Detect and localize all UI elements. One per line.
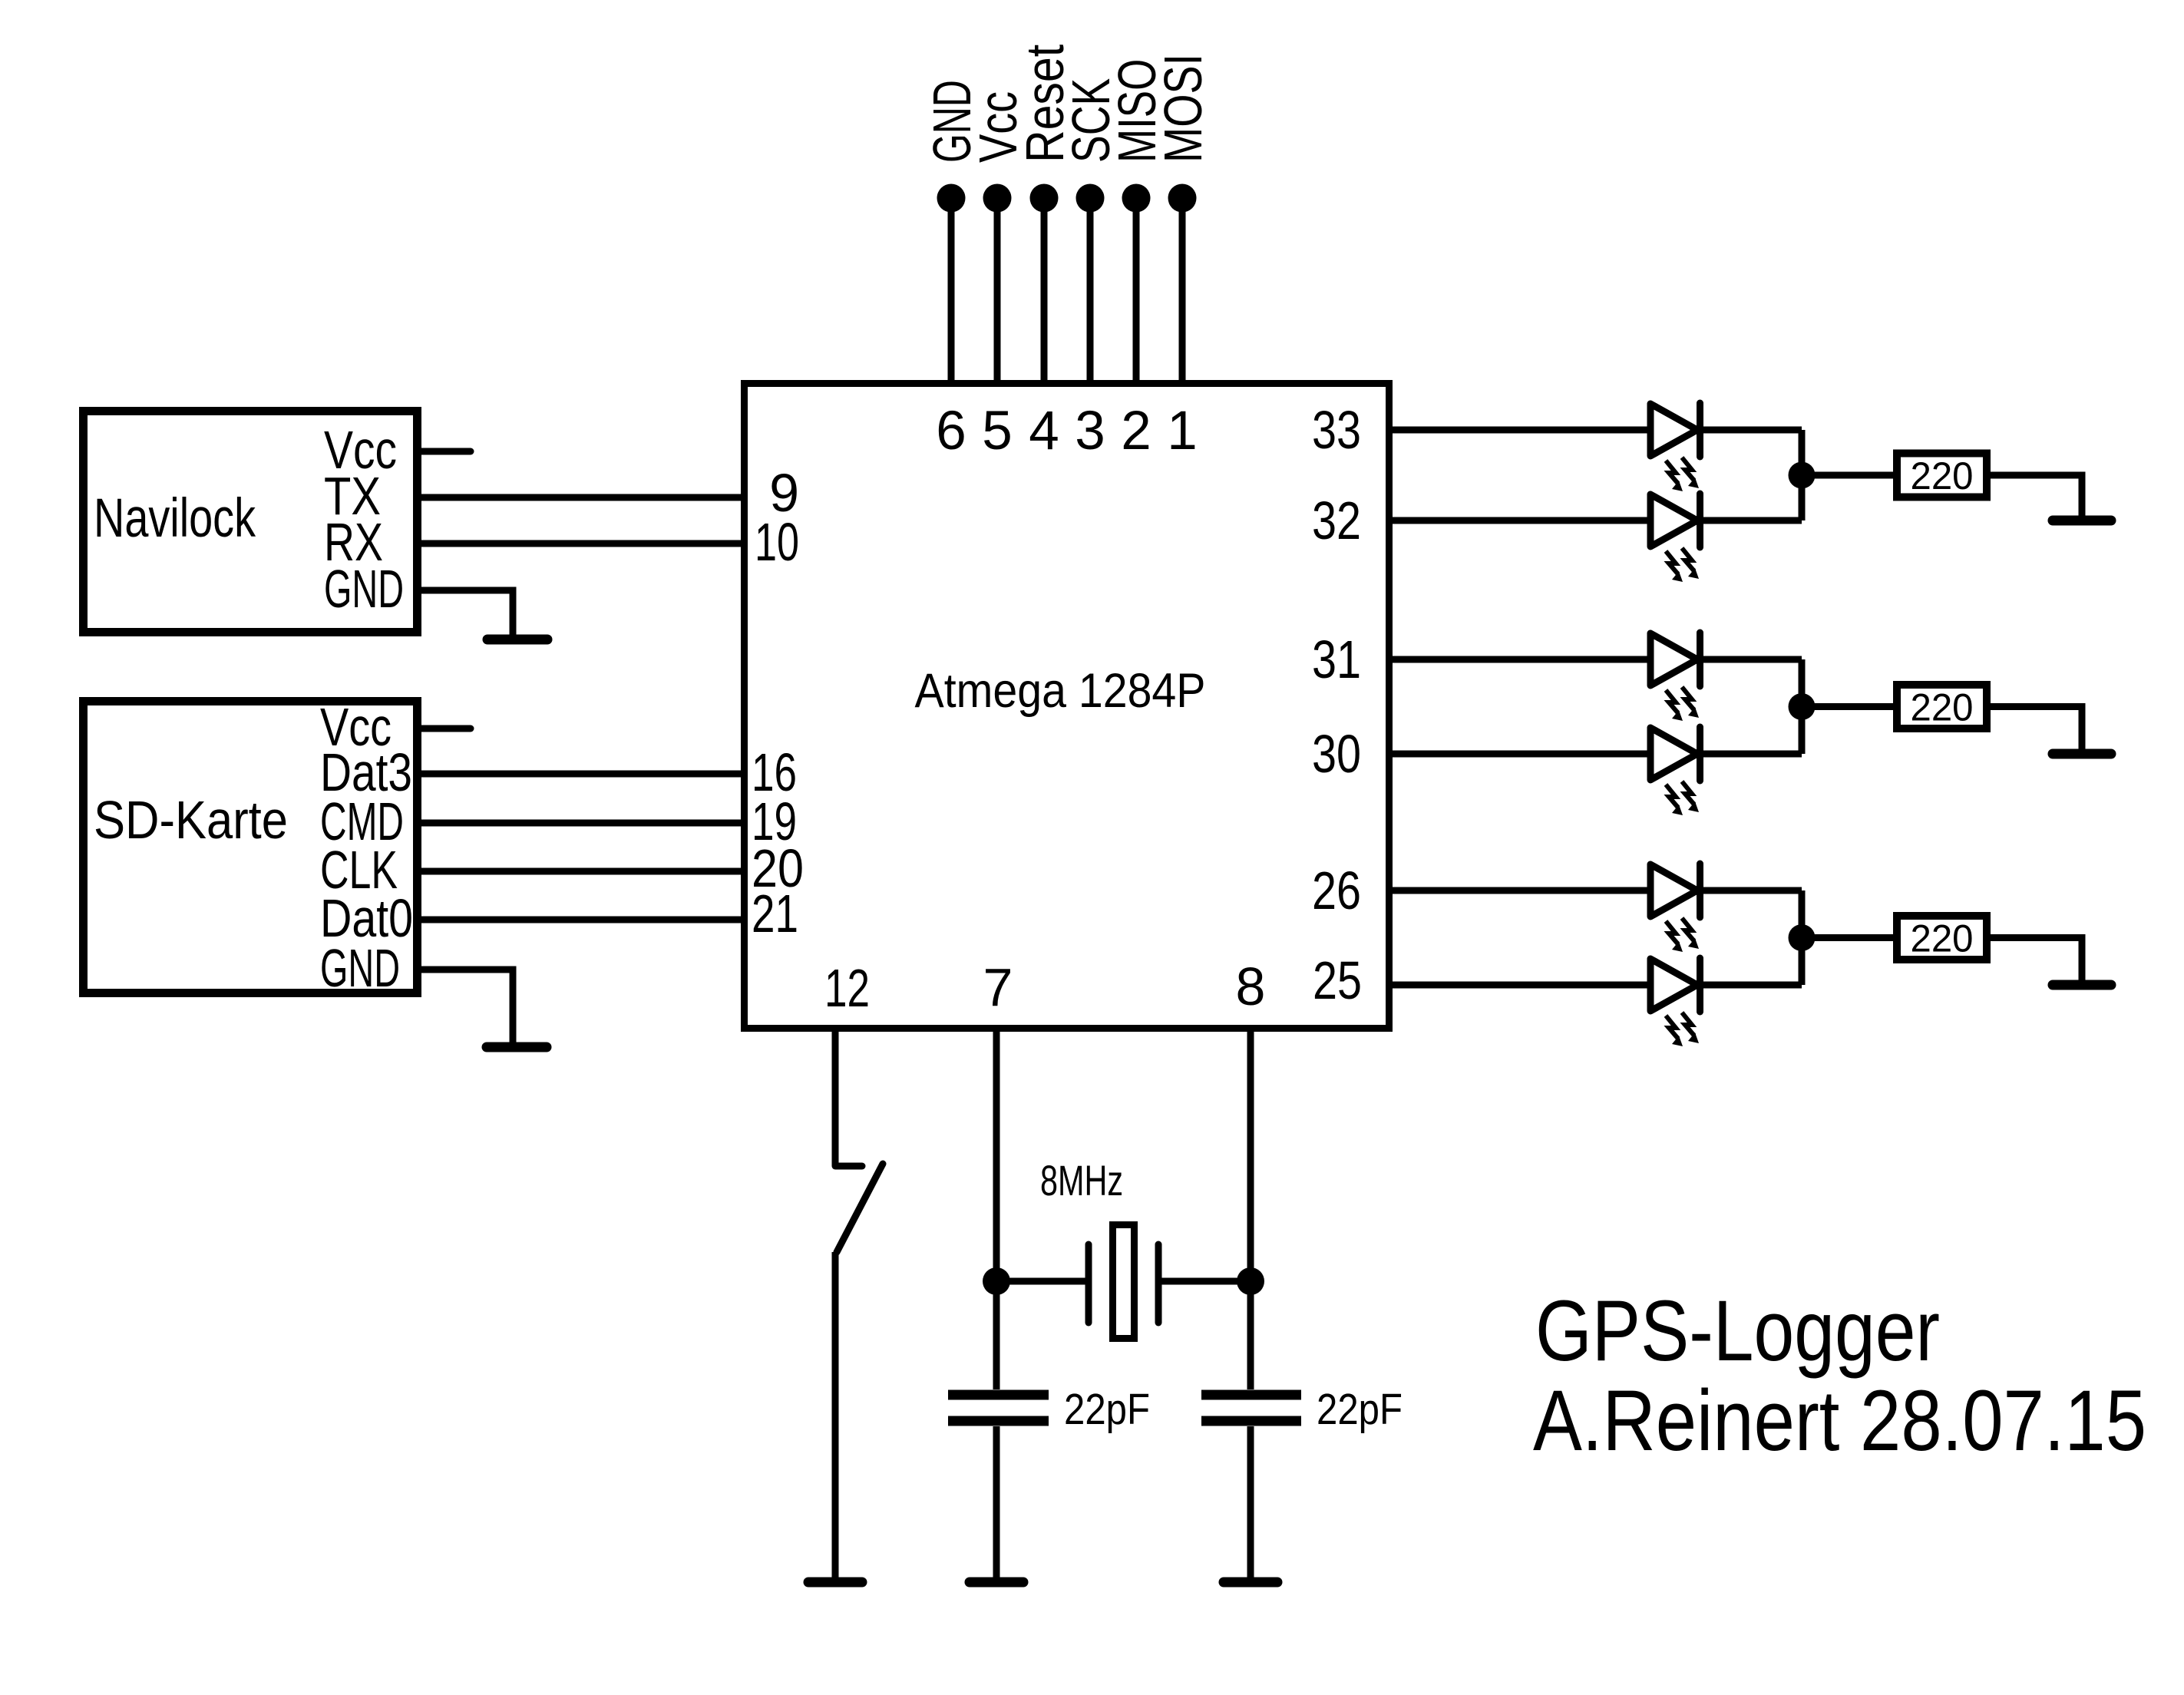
svg-text:1: 1 <box>1167 401 1198 461</box>
svg-text:8: 8 <box>1236 957 1266 1016</box>
capacitor C2 bottom plate <box>1201 1416 1301 1426</box>
wire SD Vcc stub <box>421 725 471 732</box>
svg-text:6: 6 <box>936 401 966 461</box>
wire Navilock RX to pin 10 <box>421 540 741 547</box>
svg-text:25: 25 <box>1313 950 1362 1010</box>
wire SD Dat3 to pin 16 <box>421 771 741 778</box>
junction dot group 2 <box>1789 693 1816 720</box>
svg-text:5: 5 <box>982 401 1013 461</box>
module SD-Karte box <box>84 702 418 993</box>
LED D5 <box>1650 864 1697 917</box>
wire LED D2 to node <box>1700 517 1802 524</box>
svg-text:12: 12 <box>824 958 870 1018</box>
wire node to resistor R3 <box>1802 934 1893 941</box>
svg-text:Navilock: Navilock <box>94 488 256 549</box>
wire pin 12 down <box>832 1032 839 1166</box>
wire top pin 2 <box>1133 198 1140 387</box>
wire crystal to XTAL2 <box>1158 1278 1251 1285</box>
svg-text:22pF: 22pF <box>1317 1385 1403 1434</box>
wire XTAL1 to crystal <box>996 1278 1089 1285</box>
wire pin 8 down <box>1247 1032 1254 1389</box>
junction dot pin 8 / XTAL2 <box>1237 1267 1264 1295</box>
svg-text:7: 7 <box>983 957 1013 1017</box>
svg-text:21: 21 <box>752 884 798 943</box>
IC U1 Atmega 1284P body <box>745 384 1389 1029</box>
wire LED D1 to node <box>1700 427 1802 434</box>
svg-text:GPS-Logger: GPS-Logger <box>1535 1283 1940 1379</box>
node Reset terminal dot <box>1030 184 1059 213</box>
resistor R2 body <box>1897 685 1987 729</box>
wire resistor R3 to ground <box>1991 938 2082 981</box>
svg-text:10: 10 <box>755 512 799 572</box>
LED D1 emission arrows <box>1666 461 1683 491</box>
svg-text:A.Reinert 28.07.15: A.Reinert 28.07.15 <box>1533 1373 2146 1469</box>
wire LED D6 to node <box>1700 982 1802 989</box>
wire pin 26 to LED D5 <box>1393 887 1650 894</box>
node Vcc terminal dot <box>983 184 1012 213</box>
svg-text:31: 31 <box>1312 629 1361 689</box>
junction dot pin 7 / XTAL1 <box>983 1267 1010 1295</box>
wire cathode link group 2 <box>1799 659 1806 754</box>
wire LED D3 to node <box>1700 656 1802 663</box>
wire Navilock GND <box>421 590 513 635</box>
wire switch to ground <box>832 1252 839 1580</box>
wire SD Dat0 to pin 21 <box>421 917 741 923</box>
ground resistor R2 <box>2053 749 2111 759</box>
LED D2 emission arrows <box>1666 551 1683 582</box>
LED D6 <box>1650 959 1697 1011</box>
svg-text:Atmega 1284P: Atmega 1284P <box>915 664 1206 718</box>
ground resistor R3 <box>2053 980 2111 990</box>
resistor R1 body <box>1897 454 1987 497</box>
crystal Q1 left electrode <box>1085 1244 1092 1323</box>
module Navilock box <box>84 411 418 633</box>
LED D3 emission arrows <box>1666 690 1683 721</box>
svg-text:32: 32 <box>1312 491 1361 550</box>
wire C1 to ground <box>993 1426 1000 1580</box>
wire SD CLK to pin 20 <box>421 868 741 875</box>
LED D2 <box>1650 494 1697 547</box>
wire SD CMD to pin 19 <box>421 820 741 827</box>
wire top pin 5 <box>994 198 1001 387</box>
svg-text:33: 33 <box>1312 400 1361 460</box>
ground C1 <box>970 1578 1023 1588</box>
wire resistor R1 to ground <box>1991 475 2082 516</box>
node SCK terminal dot <box>1076 184 1105 213</box>
capacitor C1 top plate <box>948 1390 1049 1400</box>
svg-text:220: 220 <box>1911 454 1974 497</box>
LED D1 <box>1650 404 1697 456</box>
switch S1 blade <box>837 1164 883 1252</box>
svg-text:30: 30 <box>1312 724 1361 784</box>
wire pin 30 to LED D4 <box>1393 751 1650 758</box>
svg-text:220: 220 <box>1911 917 1974 960</box>
node MISO terminal dot <box>1122 184 1151 213</box>
ground switch S1 <box>808 1578 862 1588</box>
crystal Q1 right electrode <box>1155 1244 1162 1323</box>
wire pin 7 down <box>993 1032 1000 1389</box>
wire node to resistor R1 <box>1802 472 1893 479</box>
svg-text:8MHz: 8MHz <box>1040 1156 1123 1204</box>
svg-text:220: 220 <box>1911 686 1974 729</box>
wire LED D4 to node <box>1700 751 1802 758</box>
wire cathode link group 1 <box>1799 430 1806 520</box>
LED D4 <box>1650 728 1697 780</box>
ground Navilock GND <box>487 635 547 645</box>
LED D5 emission arrows <box>1666 921 1683 952</box>
ground SD GND <box>487 1042 547 1052</box>
svg-text:MOSI: MOSI <box>1154 54 1214 163</box>
wire top pin 6 <box>948 198 955 387</box>
svg-text:3: 3 <box>1075 401 1105 461</box>
LED D4 emission arrows <box>1666 785 1683 815</box>
junction dot group 1 <box>1789 462 1816 489</box>
wire top pin 4 <box>1041 198 1048 387</box>
svg-text:GND: GND <box>324 559 404 619</box>
svg-text:GND: GND <box>320 938 400 998</box>
switch S1 fixed contact <box>835 1163 862 1170</box>
svg-text:2: 2 <box>1121 401 1151 461</box>
wire Navilock TX to pin 9 <box>421 494 741 501</box>
crystal Q1 body <box>1113 1225 1135 1339</box>
LED D6 emission arrows <box>1666 1016 1683 1046</box>
wire pin 31 to LED D3 <box>1393 656 1650 663</box>
wire cathode link group 3 <box>1799 890 1806 985</box>
wire pin 33 to LED D1 <box>1393 427 1650 434</box>
svg-text:SD-Karte: SD-Karte <box>94 790 288 850</box>
svg-text:26: 26 <box>1312 861 1361 920</box>
wire pin 32 to LED D2 <box>1393 517 1650 524</box>
svg-text:4: 4 <box>1029 401 1059 461</box>
wire SD GND <box>421 970 513 1042</box>
wire resistor R2 to ground <box>1991 707 2082 750</box>
resistor R3 body <box>1897 916 1987 960</box>
node GND terminal dot <box>937 184 966 213</box>
node MOSI terminal dot <box>1168 184 1197 213</box>
wire pin 25 to LED D6 <box>1393 982 1650 989</box>
wire C2 to ground <box>1247 1426 1254 1580</box>
ground resistor R1 <box>2053 516 2111 526</box>
junction dot group 3 <box>1789 924 1816 951</box>
wire node to resistor R2 <box>1802 703 1893 710</box>
wire Navilock Vcc stub <box>421 448 471 455</box>
capacitor C1 bottom plate <box>948 1416 1049 1426</box>
ground C2 <box>1224 1578 1277 1588</box>
LED D3 <box>1650 633 1697 686</box>
svg-text:22pF: 22pF <box>1064 1385 1150 1434</box>
wire top pin 3 <box>1087 198 1094 387</box>
wire LED D5 to node <box>1700 887 1802 894</box>
wire top pin 1 <box>1179 198 1186 387</box>
capacitor C2 top plate <box>1201 1390 1301 1400</box>
